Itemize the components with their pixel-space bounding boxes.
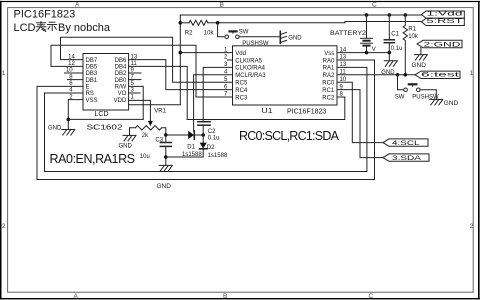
- wire DB7 to RC5: [61, 37, 233, 82]
- svg-text:VSS: VSS: [86, 98, 98, 104]
- LCD pin numbers right: [131, 54, 138, 100]
- wire Vdd rail vertical to LCD VDD feed: [129, 15, 181, 105]
- frame label B bottom: [223, 293, 227, 300]
- label RA0:EN,RA1RS: [50, 152, 136, 166]
- svg-text:RC5: RC5: [235, 81, 248, 87]
- LCD value SC1602: [87, 122, 123, 131]
- svg-text:1:Vdd: 1:Vdd: [427, 10, 464, 17]
- svg-text:GND: GND: [119, 143, 133, 149]
- wire D1 cathode to node: [195, 134, 203, 136]
- svg-text:PIC16F1823: PIC16F1823: [287, 108, 326, 115]
- svg-text:C2: C2: [208, 129, 216, 135]
- U1 reference label: [262, 108, 273, 115]
- svg-text:2: 2: [470, 223, 474, 230]
- wire DB6 to RC4: [129, 60, 233, 90]
- svg-text:GND: GND: [288, 35, 302, 41]
- net tag 6:test: [415, 71, 460, 78]
- svg-text:U1: U1: [262, 108, 273, 115]
- label SW1 value PUSHSW: [242, 41, 269, 47]
- svg-text:10k: 10k: [204, 30, 215, 36]
- wire bus DB4 to RC2: [187, 97, 345, 120]
- svg-text:D2: D2: [207, 145, 215, 151]
- ground SW1 (rotated): [279, 31, 281, 43]
- wire C3 to bottom rail: [165, 147, 167, 165]
- node junction R2 left on Vdd vertical: [179, 21, 183, 25]
- label C3 value 10u: [140, 154, 150, 160]
- frame label A bottom: [74, 293, 79, 300]
- frame label 1 left: [2, 70, 6, 77]
- svg-text:RC4: RC4: [235, 88, 248, 94]
- svg-text:0.1u: 0.1u: [391, 46, 403, 52]
- title text PIC16F1823: [14, 9, 76, 21]
- net tag 4:SCL: [383, 139, 428, 146]
- frame label 1 right: [470, 70, 474, 77]
- svg-text:VDD: VDD: [114, 98, 127, 104]
- svg-text:VR1: VR1: [154, 109, 166, 115]
- svg-text:C: C: [369, 293, 374, 300]
- svg-text:R/W: R/W: [115, 85, 127, 91]
- node junction R1 bottom: [404, 73, 408, 77]
- svg-text:DB2: DB2: [115, 71, 127, 77]
- svg-text:RC1: RC1: [322, 88, 335, 94]
- svg-text:GND: GND: [157, 183, 172, 190]
- wire RST rail to tag: [208, 22, 422, 23]
- label GND under tag: [412, 62, 427, 69]
- svg-text:CLKI/RA5: CLKI/RA5: [235, 58, 262, 64]
- label D1: [187, 144, 195, 150]
- U1 pin names left column: [235, 51, 266, 101]
- node junction D1 D2 C2: [201, 133, 205, 137]
- battery BT1: [361, 38, 373, 45]
- U1 pin numbers right: [340, 47, 347, 97]
- svg-text:SC1602: SC1602: [87, 122, 123, 131]
- capacitor C1 bottom lead: [388, 43, 390, 52]
- svg-text:LCD: LCD: [95, 111, 109, 118]
- frame label C bottom: [369, 293, 374, 300]
- wire D2 top lead: [202, 135, 204, 143]
- node junction battery minus: [365, 51, 369, 55]
- label C2: [208, 129, 216, 135]
- wire VSS down to ground rail: [68, 100, 83, 130]
- svg-text:By nobcha: By nobcha: [58, 22, 111, 34]
- wire DB1 stub: [68, 79, 84, 81]
- wire VR1 left lead to ground: [130, 128, 136, 136]
- label GND bottom: [157, 183, 172, 190]
- svg-text:DB0: DB0: [115, 78, 127, 84]
- LCD pin names right column: [114, 58, 127, 104]
- wire SW1 to ground: [239, 36, 280, 38]
- svg-text:0.1u: 0.1u: [208, 136, 220, 142]
- svg-text:R1: R1: [408, 27, 416, 33]
- label SW1: [239, 29, 249, 35]
- svg-text:DB1: DB1: [86, 78, 98, 84]
- wire RC0 to SCL tag: [337, 82, 383, 142]
- wire PIC pin3 CLKO to C2: [203, 67, 232, 121]
- label R1 value 10k: [408, 34, 419, 40]
- ground LCD VSS: [62, 130, 75, 136]
- LCD module U2 box: [83, 54, 129, 111]
- battery BT1 top lead: [366, 15, 368, 38]
- svg-text:RC3: RC3: [235, 95, 248, 101]
- svg-text:RC0: RC0: [322, 81, 335, 87]
- net tag 5:RST: [422, 18, 465, 25]
- wire RS to RA1 around bottom: [45, 67, 367, 171]
- wire VO stub: [129, 92, 140, 94]
- diode D1: [188, 131, 194, 139]
- svg-text:1: 1: [470, 70, 474, 77]
- label VR1 value 2k: [142, 133, 149, 139]
- svg-text:1s1588: 1s1588: [182, 152, 202, 158]
- wire Vdd rail top: [180, 14, 421, 16]
- svg-text:Vdd: Vdd: [235, 51, 246, 57]
- svg-text:RA0:EN,RA1RS: RA0:EN,RA1RS: [50, 152, 136, 166]
- wire C2 bottom to node: [202, 126, 204, 135]
- label GND at Vss rail: [381, 70, 395, 76]
- label D1 value 1s1588: [182, 152, 202, 158]
- node junction PIC pin1: [179, 51, 183, 55]
- svg-text:1: 1: [131, 94, 135, 100]
- label C1 value 0.1u: [391, 46, 403, 52]
- label R2 value 10k: [204, 30, 215, 36]
- label SW2: [395, 95, 405, 101]
- VR1 wiper arrow: [148, 121, 153, 126]
- ground VR1: [123, 135, 136, 141]
- frame label A top: [75, 2, 80, 9]
- wire DB3 stub: [65, 72, 84, 74]
- svg-text:4:SCL: 4:SCL: [392, 140, 420, 147]
- frame label B top: [220, 2, 224, 9]
- title text LCD By nobcha with kanji: [14, 22, 111, 34]
- PIC16F1823 U1 box: [233, 46, 338, 105]
- svg-text:PIC16F1823: PIC16F1823: [14, 9, 76, 21]
- label SW2 value PUSHSW: [412, 95, 439, 101]
- svg-text:RA2: RA2: [323, 73, 335, 79]
- svg-text:2:GND: 2:GND: [424, 42, 462, 49]
- resistor R2: [189, 20, 208, 25]
- wire R/W drop to ground rail: [129, 86, 144, 119]
- node junction VSS ground rail: [67, 118, 71, 122]
- svg-text:DB7: DB7: [86, 58, 98, 64]
- svg-text:CLKO/RA4: CLKO/RA4: [235, 66, 265, 72]
- svg-text:BATTERY2: BATTERY2: [330, 30, 366, 37]
- svg-text:DB3: DB3: [86, 71, 98, 77]
- label RC0:SCL,RC1:SDA: [239, 129, 340, 143]
- svg-text:SW: SW: [239, 29, 249, 35]
- ground SW2: [430, 99, 443, 105]
- svg-text:C3: C3: [155, 138, 163, 144]
- svg-text:RA1: RA1: [323, 66, 335, 72]
- frame label 2 right: [470, 223, 474, 230]
- potentiometer VR1 body: [136, 126, 162, 130]
- svg-text:VO: VO: [118, 91, 127, 97]
- ground 2:GND tag: [414, 55, 427, 61]
- net tag 3.SDA: [383, 154, 429, 161]
- svg-text:3.SDA: 3.SDA: [392, 155, 422, 162]
- wire PIC pin1 Vdd: [180, 52, 232, 54]
- ground C3: [159, 165, 172, 171]
- LCD label: [95, 111, 109, 118]
- svg-text:DB6: DB6: [115, 58, 127, 64]
- label C3: [155, 138, 163, 144]
- node junction C3 top: [164, 133, 168, 137]
- label C2 value 0.1u: [208, 136, 220, 142]
- wire E to RA0 around bottom: [37, 60, 375, 180]
- wire RST rail left of R2: [180, 22, 189, 24]
- resistor R1: [403, 15, 407, 75]
- node junction battery top on Vdd rail: [365, 13, 369, 17]
- wire PIC pin4 MCLR to D1 cathode: [194, 75, 233, 131]
- wire RA2 test rail: [337, 74, 415, 76]
- svg-text:E: E: [86, 85, 90, 91]
- svg-text:RC0:SCL,RC1:SDA: RC0:SCL,RC1:SDA: [239, 129, 340, 143]
- LCD pin names left column: [86, 58, 98, 104]
- U1 pin numbers left: [224, 47, 228, 97]
- wire node to C3: [165, 135, 167, 142]
- diode D2: [200, 143, 207, 149]
- svg-text:GND: GND: [444, 100, 459, 107]
- svg-text:GND: GND: [48, 126, 62, 132]
- svg-text:6:test: 6:test: [421, 71, 459, 78]
- node junction C1 bottom: [388, 51, 392, 55]
- wire bottom rail C3 to D2: [166, 156, 203, 158]
- wire D1 anode: [166, 134, 188, 136]
- svg-text:Vss: Vss: [324, 51, 334, 57]
- frame label C top: [372, 2, 377, 9]
- wire Vss rail drop to ground: [388, 53, 390, 61]
- frame label 2 left: [2, 223, 6, 230]
- svg-text:B: B: [223, 293, 227, 300]
- node junction R1 top on Vdd rail: [404, 13, 408, 17]
- capacitor C3: [160, 142, 171, 144]
- svg-text:A: A: [74, 293, 79, 300]
- wire ground rail under LCD: [68, 118, 143, 120]
- switch SW2 PUSHSW: [404, 84, 420, 91]
- wire D2 bottom lead: [202, 149, 204, 157]
- svg-text:1s1588: 1s1588: [208, 153, 228, 159]
- capacitor C2: [198, 121, 210, 123]
- wire DB2 stub: [129, 72, 141, 74]
- label R2: [185, 30, 193, 36]
- svg-text:PUSHSW: PUSHSW: [242, 41, 269, 47]
- svg-text:C1: C1: [391, 31, 399, 37]
- label C1: [391, 31, 399, 37]
- net tag 2:GND: [417, 40, 462, 47]
- switch SW1 PUSHSW: [225, 31, 239, 38]
- label D2 value 1s1588: [208, 153, 228, 159]
- wire DB0 stub: [129, 79, 141, 81]
- svg-text:GND: GND: [412, 62, 427, 69]
- svg-text:2k: 2k: [142, 133, 149, 139]
- svg-text:R2: R2: [185, 30, 193, 36]
- svg-text:DB4: DB4: [115, 65, 127, 71]
- LCD pin numbers left: [66, 54, 76, 100]
- label BATTERY2: [330, 30, 366, 37]
- wire LCD pin1 to VR1 wiper: [129, 100, 151, 121]
- svg-text:V: V: [372, 47, 376, 53]
- svg-text:A: A: [75, 2, 80, 9]
- node junction bottom rail: [164, 155, 168, 159]
- svg-text:RC2: RC2: [322, 95, 335, 101]
- svg-text:DB5: DB5: [86, 65, 98, 71]
- svg-text:RA0: RA0: [323, 58, 335, 64]
- ground Vss rail: [384, 61, 397, 67]
- svg-text:5:RST: 5:RST: [427, 18, 463, 25]
- U1 value PIC16F1823: [287, 108, 326, 115]
- node junction SW2 tap: [396, 73, 400, 77]
- svg-text:LCD: LCD: [14, 22, 36, 34]
- wire 2:GND tag to ground: [420, 48, 422, 55]
- U1 pin names right column: [322, 51, 335, 101]
- label VR1: [154, 109, 166, 115]
- kanji glyph 2: [48, 22, 57, 30]
- label GND at SW2: [444, 100, 459, 107]
- battery BT1 bottom lead: [366, 47, 368, 53]
- node junction SW1 tap: [216, 21, 220, 25]
- net tag 1:Vdd: [422, 11, 465, 18]
- node junction C1 top on Vdd rail: [388, 13, 392, 17]
- svg-text:10u: 10u: [140, 154, 150, 160]
- svg-text:2: 2: [2, 223, 6, 230]
- svg-text:1: 1: [2, 70, 6, 77]
- svg-text:RS: RS: [86, 91, 94, 97]
- label GND at SW1: [288, 35, 302, 41]
- svg-text:SW: SW: [395, 95, 405, 101]
- wire RC1 to SDA tag: [337, 90, 383, 158]
- wire PIC pin2 stub: [228, 59, 233, 61]
- capacitor C1: [384, 39, 394, 41]
- wire Vss rail: [337, 52, 390, 54]
- capacitor C1 top lead: [388, 15, 390, 39]
- wire SW2 drop: [398, 75, 404, 90]
- kanji glyph 1: [36, 22, 46, 32]
- label V under battery: [372, 47, 376, 53]
- label GND under VR1: [119, 143, 133, 149]
- wire SW2 to ground: [420, 90, 436, 100]
- svg-text:D1: D1: [187, 144, 195, 150]
- wire SW1 drop: [218, 23, 225, 37]
- label D2: [207, 145, 215, 151]
- svg-text:C: C: [372, 2, 377, 9]
- wire DB4 down to bus: [129, 66, 188, 119]
- svg-text:10k: 10k: [408, 34, 419, 40]
- label R1: [408, 27, 416, 33]
- wire VR1 right lead to node: [162, 128, 166, 135]
- wire DB5 to RC3: [51, 45, 233, 97]
- label GND at LCD: [48, 126, 62, 132]
- svg-text:MCLR/RA3: MCLR/RA3: [235, 73, 266, 79]
- svg-text:B: B: [220, 2, 224, 9]
